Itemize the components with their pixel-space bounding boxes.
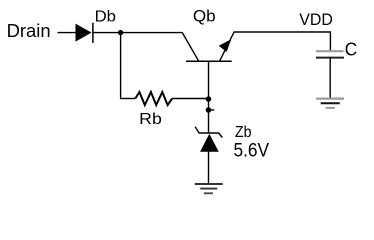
svg-text:Drain: Drain	[7, 20, 51, 41]
wire diode cathode to collector	[93, 32, 183, 34]
label Db	[95, 9, 117, 26]
wire node A down to Rb	[120, 33, 122, 99]
net label Drain	[7, 20, 51, 41]
svg-text:5.6V: 5.6V	[234, 141, 270, 162]
resistor Rb	[135, 92, 172, 105]
capacitor C	[316, 51, 344, 57]
label C	[345, 39, 357, 59]
wire Rb left lead	[120, 98, 135, 100]
value label 5.6V	[234, 141, 270, 162]
junction zener node with stub	[206, 107, 215, 113]
wire Drain to diode anode	[58, 32, 77, 34]
wire Rb right lead to base node	[172, 98, 208, 100]
wire emitter to VDD corner	[234, 31, 331, 33]
svg-text:Qb: Qb	[193, 6, 216, 25]
wire capacitor to ground	[329, 58, 331, 98]
svg-text:Db: Db	[95, 9, 117, 26]
ground (below Zb)	[195, 184, 223, 193]
transistor Q1 Qb	[182, 32, 234, 61]
wire zener anode to ground	[208, 151, 210, 184]
svg-text:Zb: Zb	[235, 124, 252, 141]
label Zb	[235, 124, 252, 141]
svg-text:VDD: VDD	[299, 10, 333, 29]
svg-text:C: C	[345, 39, 357, 59]
label Qb	[193, 6, 216, 25]
junction node A (drain node)	[118, 30, 123, 35]
svg-text:Rb: Rb	[139, 111, 162, 128]
label Rb	[139, 111, 162, 128]
diode Db	[76, 23, 93, 43]
net label VDD	[299, 10, 333, 29]
wire VDD corner down to capacitor	[329, 31, 331, 51]
ground (right, below C)	[316, 99, 344, 108]
wire base stem	[208, 61, 210, 133]
junction base/Rb	[206, 96, 212, 102]
zener diode Zb	[195, 127, 222, 152]
